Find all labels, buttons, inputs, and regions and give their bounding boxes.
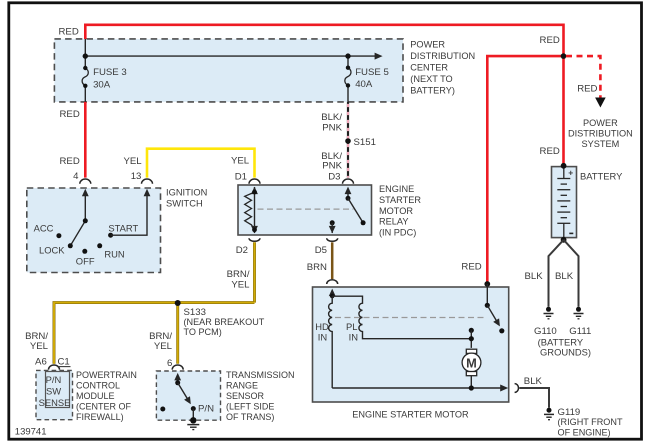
- contact (left, no P/N): [160, 407, 165, 412]
- svg-text:RED: RED: [540, 146, 560, 157]
- label: ENGINE STARTER MOTOR: [352, 410, 469, 420]
- svg-text:P/N: P/N: [46, 374, 62, 385]
- svg-text:D5: D5: [315, 245, 327, 256]
- wire label BRN/YEL (PCM): [25, 331, 49, 352]
- svg-text:13: 13: [131, 171, 142, 182]
- svg-text:SYSTEM: SYSTEM: [582, 139, 620, 149]
- svg-text:40A: 40A: [355, 79, 373, 90]
- wire RED dashed to power distribution system: [566, 56, 606, 107]
- connector arc: PCM pin A6 connector C1: [35, 357, 70, 370]
- wire label BLK (G111): [555, 271, 574, 282]
- svg-text:RED: RED: [60, 109, 80, 120]
- wire RED: fuse 3 feed from battery (top run): [85, 25, 563, 56]
- svg-text:(CENTER OF: (CENTER OF: [76, 402, 132, 412]
- svg-text:FUSE 5: FUSE 5: [355, 67, 389, 78]
- svg-text:PNK: PNK: [322, 123, 342, 134]
- splice S151: [345, 137, 376, 148]
- contact RUN: [97, 243, 125, 259]
- wire BLK: starter motor to ground G119: [519, 388, 549, 408]
- svg-text:SW: SW: [46, 386, 61, 397]
- connector arc: relay pin D1: [235, 172, 260, 184]
- svg-text:PL: PL: [346, 321, 357, 332]
- connector arc: relay pin D5: [315, 238, 338, 256]
- engine starter motor relay box (in PDC): [238, 185, 372, 235]
- contact OFF: [76, 249, 95, 267]
- svg-text:POWERTRAIN: POWERTRAIN: [76, 370, 137, 380]
- svg-text:BRN: BRN: [307, 262, 327, 273]
- ignition switch terminal 4 arrow: [82, 189, 89, 221]
- svg-text:(NEXT TO: (NEXT TO: [410, 74, 452, 84]
- node: junction battery feed: [561, 53, 567, 59]
- svg-text:RELAY: RELAY: [379, 217, 408, 227]
- relay switch D3 to D5: [329, 187, 366, 234]
- svg-text:LOCK: LOCK: [39, 244, 65, 255]
- contact START wired to terminal 13: [108, 189, 150, 238]
- power distribution center box: [54, 39, 403, 102]
- svg-text:SENSE: SENSE: [39, 397, 71, 408]
- svg-text:FIREWALL): FIREWALL): [76, 412, 124, 422]
- svg-text:YEL: YEL: [124, 156, 143, 167]
- svg-text:BLK: BLK: [555, 271, 574, 282]
- svg-text:YEL: YEL: [231, 156, 250, 167]
- ignition switch box: [27, 188, 161, 273]
- svg-text:DISTRIBUTION: DISTRIBUTION: [410, 51, 475, 61]
- ground G119: [544, 407, 623, 438]
- svg-text:(NEAR BREAKOUT: (NEAR BREAKOUT: [184, 317, 265, 327]
- splice S133: [175, 300, 265, 337]
- battery B1 box: [552, 167, 577, 238]
- svg-text:YEL: YEL: [231, 279, 250, 290]
- wire YEL: ignition switch terminal 13 to relay D1: [147, 149, 255, 178]
- starter switch output to motor: [469, 328, 474, 348]
- svg-text:IN: IN: [349, 331, 358, 342]
- contact P/N to ground: [191, 403, 214, 419]
- fuse FUSE 3 30A: [82, 39, 127, 102]
- wire label BRN/YEL (trans range sensor): [149, 331, 173, 352]
- ignition switch wiper (4 to LOCK): [70, 218, 88, 246]
- relay coil between D1 and D2: [245, 187, 258, 234]
- label: POWER DISTRIBUTION CENTER (NEXT TO BATTERY): [410, 40, 475, 96]
- svg-text:IGNITION: IGNITION: [166, 188, 207, 198]
- svg-text:4: 4: [73, 171, 79, 182]
- svg-text:(IN PDC): (IN PDC): [379, 228, 416, 238]
- svg-text:BRN/: BRN/: [25, 331, 48, 342]
- svg-text:D2: D2: [236, 245, 248, 256]
- engine starter motor box: [313, 287, 509, 402]
- svg-text:HD: HD: [315, 321, 329, 332]
- wire label BLK/PNK (below S151): [321, 151, 342, 172]
- svg-text:STARTER: STARTER: [379, 195, 421, 205]
- svg-text:CENTER: CENTER: [410, 62, 448, 72]
- svg-text:BRN/: BRN/: [227, 269, 250, 280]
- svg-text:G119: G119: [558, 407, 581, 418]
- label: G110 G111 (BATTERY GROUNDS): [534, 326, 591, 358]
- wire label BLK (G110): [525, 271, 544, 282]
- PDC internal bus wire: [85, 53, 382, 60]
- svg-text:TO PCM): TO PCM): [184, 327, 222, 337]
- svg-text:OFF: OFF: [76, 256, 95, 267]
- wire BRN: relay D5 to starter motor: [331, 242, 334, 279]
- svg-text:MOTOR: MOTOR: [379, 206, 413, 216]
- transmission range sensor box: [156, 371, 220, 420]
- svg-text:YEL: YEL: [30, 341, 49, 352]
- wire label BLK/PNK (above S151): [321, 112, 342, 134]
- svg-text:BLK: BLK: [524, 376, 543, 387]
- connector arc: starter ground exit BLK: [515, 376, 543, 392]
- starter pull-in winding PL IN: [332, 296, 471, 342]
- svg-text:RANGE: RANGE: [226, 380, 258, 390]
- wire BLK: battery negative to ground G111: [564, 240, 579, 307]
- svg-text:MODULE: MODULE: [76, 391, 115, 401]
- wire label RED (below PDC): [60, 109, 80, 120]
- contact ACC: [34, 223, 62, 239]
- svg-text:POWER: POWER: [583, 118, 618, 128]
- transmission range sensor switch: [174, 373, 191, 404]
- svg-text:FUSE 3: FUSE 3: [93, 67, 127, 78]
- wire RED: feed to starter solenoid switch: [487, 56, 563, 284]
- starter motor M: [462, 349, 481, 388]
- label: IGNITION SWITCH: [166, 188, 207, 209]
- svg-text:TRANSMISSION: TRANSMISSION: [226, 370, 295, 380]
- svg-text:IN: IN: [318, 331, 327, 342]
- connector arc: ignition terminal 13: [131, 171, 153, 184]
- connector arc: ignition terminal 4: [73, 171, 91, 184]
- svg-text:RED: RED: [59, 27, 79, 38]
- wire label RED (top right): [540, 35, 560, 46]
- svg-text:DISTRIBUTION: DISTRIBUTION: [568, 129, 633, 139]
- svg-text:6: 6: [167, 358, 172, 369]
- svg-text:GROUNDS): GROUNDS): [540, 347, 591, 358]
- connector arc: starter motor input: [327, 280, 338, 284]
- svg-text:S151: S151: [354, 137, 376, 148]
- wire BLK/PNK: fuse 5 to splice S151 to relay D3: [347, 102, 349, 178]
- svg-text:CONTROL: CONTROL: [76, 380, 120, 390]
- svg-text:D3: D3: [328, 172, 340, 183]
- wire BRN/YEL: relay D2 down to splice bus: [253, 242, 256, 302]
- wire label RED (top left): [59, 27, 79, 38]
- wire BRN/YEL: S133 down to transmission range sensor terminal 6: [176, 303, 179, 364]
- wire BRN/YEL: splice bus to PCM and S133: [54, 303, 255, 364]
- svg-text:RUN: RUN: [104, 249, 124, 260]
- svg-text:C1: C1: [58, 357, 70, 368]
- label: TRANSMISSION RANGE SENSOR (LEFT SIDE OF TRANS): [226, 370, 295, 422]
- svg-text:(LEFT SIDE: (LEFT SIDE: [226, 402, 274, 412]
- label: BATTERY: [580, 170, 623, 181]
- svg-text:RED: RED: [461, 262, 481, 273]
- svg-text:START: START: [108, 223, 138, 234]
- svg-text:P/N: P/N: [198, 403, 214, 414]
- svg-text:ENGINE: ENGINE: [379, 184, 414, 194]
- label: POWERTRAIN CONTROL MODULE (CENTER OF FIREWALL): [76, 370, 137, 422]
- wire RED: fuse 3 to ignition switch terminal 4: [84, 102, 87, 178]
- svg-text:139741: 139741: [15, 427, 47, 438]
- wire label RED (above battery): [540, 146, 560, 157]
- wire label BRN/YEL (relay D2): [227, 269, 251, 291]
- svg-text:BRN/: BRN/: [149, 331, 172, 342]
- svg-text:BLK: BLK: [525, 271, 544, 282]
- connector arc: transmission range sensor terminal 6: [167, 358, 183, 370]
- starter solenoid mechanical linkage (dashed): [335, 317, 486, 319]
- label: POWER DISTRIBUTION SYSTEM: [568, 118, 633, 149]
- wire label RED (starter feed): [461, 262, 481, 273]
- svg-text:ACC: ACC: [34, 223, 54, 234]
- wire label BRN (relay D5): [307, 262, 327, 273]
- svg-text:(RIGHT FRONT: (RIGHT FRONT: [558, 417, 623, 427]
- wire label YEL (relay D1): [231, 156, 250, 167]
- ground at transmission range sensor: [187, 417, 199, 430]
- svg-text:OF TRANS): OF TRANS): [226, 412, 274, 422]
- svg-text:PNK: PNK: [322, 161, 342, 172]
- svg-text:YEL: YEL: [154, 341, 173, 352]
- svg-text:M: M: [466, 355, 477, 370]
- relay mechanical linkage (dashed): [258, 208, 354, 210]
- svg-text:SENSOR: SENSOR: [226, 391, 265, 401]
- fuse FUSE 5 40A: [345, 53, 389, 102]
- svg-text:SWITCH: SWITCH: [166, 198, 203, 208]
- svg-text:RED: RED: [60, 156, 80, 167]
- sheet number 139741: [15, 427, 47, 438]
- connector arc: relay pin D3: [328, 172, 353, 184]
- wire label RED (dashed branch): [577, 84, 597, 95]
- contact LOCK: [39, 243, 73, 255]
- wire label YEL (terminal 13): [124, 156, 143, 167]
- svg-text:+: +: [568, 167, 573, 177]
- wire BLK: battery negative to ground G110: [549, 237, 567, 307]
- ground G111: [574, 307, 584, 319]
- starter hold-in winding HD IN: [315, 296, 332, 388]
- svg-text:RED: RED: [577, 84, 597, 95]
- svg-text:A6: A6: [35, 357, 47, 368]
- label: ENGINE STARTER MOTOR RELAY (IN PDC): [379, 184, 421, 238]
- svg-text:BATTERY): BATTERY): [410, 85, 455, 95]
- ground G110: [544, 307, 554, 319]
- starter entry terminal arrow (from D5): [329, 289, 336, 299]
- svg-text:30A: 30A: [93, 79, 111, 90]
- label: P/N SW SENSE: [39, 374, 71, 408]
- starter solenoid switch: [484, 281, 504, 333]
- svg-text:ENGINE STARTER MOTOR: ENGINE STARTER MOTOR: [352, 410, 469, 420]
- svg-text:BATTERY: BATTERY: [580, 170, 623, 181]
- svg-text:D1: D1: [235, 172, 247, 183]
- starter ground bus wire: [332, 385, 508, 392]
- svg-text:BLK/: BLK/: [321, 112, 342, 123]
- wire label RED (above terminal 4): [60, 156, 80, 167]
- battery cells and terminals: [557, 163, 573, 238]
- connector arc: relay pin D2: [236, 238, 260, 256]
- svg-text:POWER: POWER: [410, 40, 445, 50]
- wire RED: battery positive down to battery: [562, 56, 565, 165]
- svg-text:OF ENGINE): OF ENGINE): [558, 428, 611, 438]
- svg-text:RED: RED: [540, 35, 560, 46]
- powertrain control module box: [36, 370, 73, 419]
